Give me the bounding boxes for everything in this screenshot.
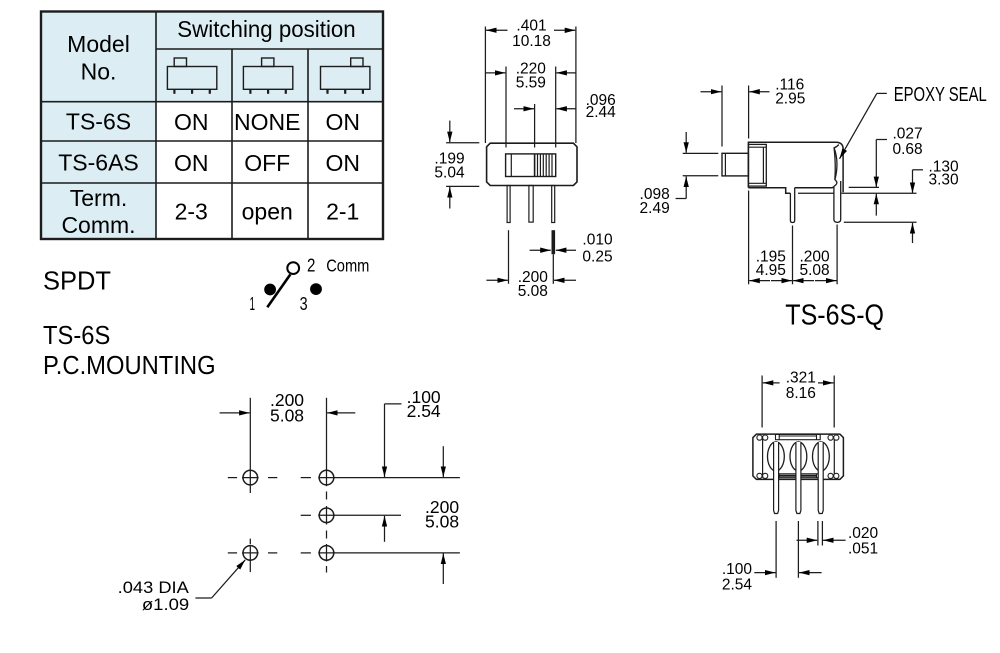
pin 2 side <box>834 181 841 222</box>
dim .100 extension lines <box>775 521 777 578</box>
feature line from MR hole <box>334 514 401 516</box>
actuator slot bottom <box>776 474 821 478</box>
pin 3 front <box>552 186 555 223</box>
svg-text:4.95: 4.95 <box>756 262 786 279</box>
dim .195 .200 extension lines <box>748 191 750 285</box>
front view dimension text <box>434 18 616 300</box>
dim .096 extension line <box>534 104 536 148</box>
feature line from BR hole <box>334 552 460 554</box>
svg-text:2.95: 2.95 <box>775 91 805 108</box>
front view dimension lines <box>446 27 576 284</box>
centerline BL horizontal dashes <box>228 552 237 554</box>
dim .027 extension lines <box>849 186 879 188</box>
dim .321 arrows <box>763 382 780 384</box>
dim .020 arrows <box>797 539 818 541</box>
hole bottom-right <box>319 546 334 561</box>
terminal ellipses <box>768 442 830 471</box>
svg-text:1: 1 <box>250 293 256 314</box>
body bottom with pin boss <box>748 186 834 193</box>
actuator slot top <box>776 434 821 439</box>
dim .020 extension lines <box>817 521 819 546</box>
mount bracket <box>748 144 766 186</box>
svg-text:TS-6S: TS-6S <box>43 322 110 350</box>
dim .130 extension line <box>844 221 917 223</box>
dim .200 top horizontal arrows <box>220 412 250 414</box>
dim .200 extension line <box>508 230 510 284</box>
dim .098 extension lines <box>683 152 719 154</box>
svg-text:0.25: 0.25 <box>582 249 612 266</box>
svg-text:TS-6AS: TS-6AS <box>58 149 139 175</box>
centerline right column dashes <box>326 492 328 500</box>
hole top-right <box>319 470 334 485</box>
svg-text:Comm.: Comm. <box>61 212 135 238</box>
svg-text:2.49: 2.49 <box>640 200 670 217</box>
dim .200 right up arrows <box>384 516 386 542</box>
svg-text:.027: .027 <box>893 126 923 143</box>
svg-text:ON: ON <box>325 150 360 176</box>
dim .116 extension lines <box>721 86 723 147</box>
dim .116 arrows <box>701 91 722 93</box>
svg-text:.100: .100 <box>722 561 753 578</box>
centerline TL horizontal dashes <box>228 477 237 479</box>
centerline BR horizontal <box>301 552 311 554</box>
hole bottom-left <box>243 546 258 561</box>
centerline MR horizontal <box>301 514 311 516</box>
corner posts <box>757 435 839 479</box>
svg-text:2-1: 2-1 <box>326 199 359 225</box>
table header text <box>67 16 356 85</box>
dim texts for mounting pattern <box>118 387 460 614</box>
centerline TL vertical <box>249 398 251 493</box>
svg-text:ON: ON <box>174 109 209 135</box>
pin 1 bottom <box>774 442 779 514</box>
svg-text:ON: ON <box>325 109 360 135</box>
svg-text:2-3: 2-3 <box>175 199 208 225</box>
switch icon left-position <box>167 58 216 94</box>
dim .220 arrows <box>485 72 505 74</box>
dim .220 extension lines <box>505 67 507 148</box>
centerline TR vertical <box>326 398 328 486</box>
svg-text:5.08: 5.08 <box>800 262 830 279</box>
svg-text:TS-6S: TS-6S <box>66 109 131 135</box>
bottom view dimension lines <box>754 376 845 578</box>
window inner line <box>510 154 512 177</box>
centerline BL vertical <box>249 539 251 545</box>
svg-text:open: open <box>242 199 293 225</box>
node 3 dot <box>310 283 322 295</box>
node 2 comm open circle <box>287 262 299 274</box>
dim .098 arrows <box>685 132 687 153</box>
table switching-position <box>41 12 383 240</box>
centerline TR horizontal <box>301 477 311 479</box>
dim .200 arrows <box>486 279 508 281</box>
svg-text:5.04: 5.04 <box>434 164 465 181</box>
svg-text:5.08: 5.08 <box>518 283 548 300</box>
svg-text:ø1.09: ø1.09 <box>142 595 189 614</box>
pin 2 bottom <box>796 442 801 514</box>
lever wire <box>267 275 290 308</box>
leader .043 DIA <box>195 597 211 599</box>
switch icon right-position <box>321 58 370 94</box>
svg-text:2.54: 2.54 <box>407 401 441 421</box>
bottom view dimension text <box>722 369 879 593</box>
slider window <box>506 154 556 177</box>
svg-text:No.: No. <box>81 59 117 85</box>
svg-text:OFF: OFF <box>244 150 290 176</box>
switch body bottom <box>753 434 844 513</box>
svg-text:EPOXY SEAL: EPOXY SEAL <box>894 84 987 106</box>
svg-text:TS-6S-Q: TS-6S-Q <box>785 299 884 331</box>
svg-text:2: 2 <box>307 255 315 276</box>
dim .195 .200 arrows <box>749 280 770 282</box>
dim .100 arrows <box>754 572 775 574</box>
dim .100 leader and arrows <box>385 403 402 405</box>
knob side <box>722 153 748 176</box>
pin 1 side <box>790 188 794 223</box>
dim .199 extension lines <box>446 142 479 144</box>
side wall lines <box>762 436 764 478</box>
dim .027 leader <box>876 139 887 141</box>
svg-text:Switching position: Switching position <box>177 16 355 42</box>
dim .010 arrows <box>530 249 551 251</box>
epoxy seal leader <box>877 92 887 94</box>
switch body side <box>722 142 843 222</box>
side view dimension text <box>640 77 960 279</box>
svg-text:Comm: Comm <box>326 256 369 276</box>
table body text <box>58 109 360 238</box>
switch body front <box>487 143 577 222</box>
svg-text:3.30: 3.30 <box>929 172 960 189</box>
svg-text:.321: .321 <box>786 369 816 386</box>
svg-text:0.68: 0.68 <box>893 141 923 158</box>
svg-text:.010: .010 <box>582 232 613 249</box>
svg-text:P.C.MOUNTING: P.C.MOUNTING <box>43 352 216 380</box>
dim .401 arrows <box>486 29 508 31</box>
svg-text:5.08: 5.08 <box>270 406 304 426</box>
epoxy seal crescent <box>834 145 839 187</box>
svg-text:5.59: 5.59 <box>516 75 546 92</box>
svg-text:NONE: NONE <box>234 109 300 135</box>
pin 2 front <box>529 186 533 223</box>
spdt schematic symbol <box>250 255 370 315</box>
pin 3 bottom <box>818 442 823 514</box>
dim .010 pin thick mark <box>551 230 555 254</box>
svg-text:8.16: 8.16 <box>786 385 816 402</box>
node 1 dot <box>264 284 276 296</box>
hole mid-right <box>319 508 334 523</box>
svg-text:.051: .051 <box>848 541 878 558</box>
dim .401 extension lines <box>484 27 486 144</box>
svg-text:2.44: 2.44 <box>586 104 617 121</box>
svg-text:.020: .020 <box>848 525 879 542</box>
dim .321 extension lines <box>761 376 763 428</box>
dim .130 leader <box>913 169 924 171</box>
svg-text:ON: ON <box>174 150 209 176</box>
side view dimension lines <box>676 86 923 285</box>
dim .199 arrows <box>449 121 451 143</box>
dim .096 arrows <box>514 108 534 110</box>
pin 1 front <box>507 186 510 223</box>
svg-text:10.18: 10.18 <box>512 33 551 50</box>
svg-text:5.08: 5.08 <box>425 511 459 531</box>
svg-text:2.54: 2.54 <box>722 577 753 594</box>
svg-text:SPDT: SPDT <box>43 267 111 295</box>
svg-text:Model: Model <box>67 31 130 57</box>
svg-text:Term.: Term. <box>70 185 128 211</box>
body outline <box>748 142 843 192</box>
feature line from TR hole <box>334 477 460 479</box>
hole top-left <box>243 470 258 485</box>
svg-text:3: 3 <box>300 293 308 314</box>
slider knob hatch <box>535 154 552 177</box>
switch icon center-position <box>243 58 292 94</box>
